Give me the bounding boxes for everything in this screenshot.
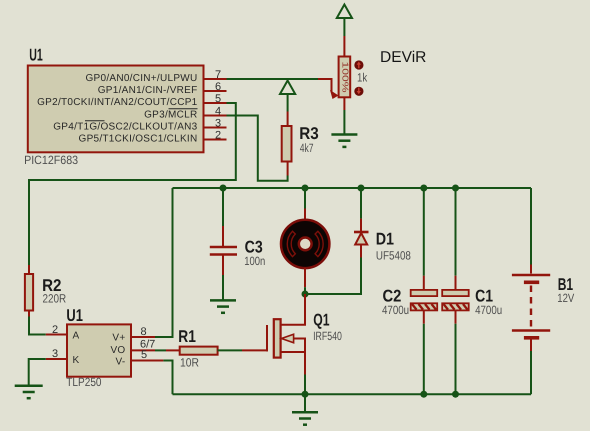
wire: R2 bottom to U2 pin2 [29,317,46,335]
RV value 1k [357,70,368,84]
svg-text:K: K [73,355,80,366]
TLP250 pin 2 stub [46,334,67,336]
C1 top red pin [455,276,457,290]
svg-text:4700u: 4700u [475,303,502,317]
svg-text:7: 7 [215,69,221,81]
C3 top red pin [222,226,224,246]
svg-text:GP4/T1G/OSC2/CLKOUT/AN3: GP4/T1G/OSC2/CLKOUT/AN3 [53,121,197,132]
R3 value 4k7 [300,141,314,155]
TLP250 pin number 8 [141,326,147,338]
wire: rail to B1 plus [530,188,532,265]
R2 top red pin [28,265,30,274]
svg-text:4: 4 [215,105,221,117]
svg-text:3: 3 [52,348,58,360]
svg-text:220R: 220R [43,292,67,306]
U1 pin label GP2 [37,97,198,108]
ground symbol below RV [331,135,357,147]
bottom ground rail wire [173,393,532,395]
C3 reference label [245,238,263,257]
svg-text:IRF540: IRF540 [313,329,342,343]
TLP250 inner label V- [115,357,125,368]
wire: rail to C3 [222,188,224,226]
wire: TLP250 pin8 to VCC rail [155,188,173,337]
R3 reference label [299,124,319,143]
R3 bottom red pin [287,162,289,176]
wire: RV top to power arrow [343,19,345,37]
U1 pin 4 stub [204,115,227,117]
TLP250 pin 5 stub [131,360,163,362]
U1 pin number 4 [215,105,221,117]
U1 pin label GP5 [79,133,198,144]
svg-text:A: A [73,331,80,342]
U1 pin number 3 [215,117,221,129]
wire: bottom rail to Q1 ground [304,394,306,412]
C2 bottom red pin [423,310,425,323]
wire: rail to C2 [423,188,425,276]
U1 pin label GP4 with T1G overline [53,121,197,133]
junction rail/C3 [220,185,227,192]
potentiometer RV body (1k DEVIR) [339,57,351,98]
U1 pin number 6 [215,81,221,93]
svg-text:3: 3 [215,117,221,129]
U1 pin 2 stub [204,139,227,141]
D1 cathode red pin [360,219,362,232]
TLP250 pin number 3 [52,348,58,360]
RV terminal marker dot top [354,60,363,69]
ground symbol at TLP250 K [15,386,43,398]
U1 pin label GP3/MCLR with overline [144,109,197,121]
C2 value 4700u [382,303,409,317]
motor top pin wire from rail [304,188,306,209]
Q1 drain lead [281,294,305,325]
D1 anode red pin [360,245,362,258]
svg-text:1k: 1k [357,70,368,84]
Q1 drain vertical red (node to channel) [304,294,306,322]
junction rail/C2 [420,185,427,192]
RV top terminal red pin [343,36,345,57]
junction rail/D1 [358,185,365,192]
B1 bottom red pin [530,340,532,352]
motor body [281,220,329,268]
motor bottom red pin [304,268,306,287]
resistor R1 body [180,347,218,355]
svg-text:12V: 12V [557,291,574,305]
Q1 source bottom lead [281,351,305,353]
IC U1 PIC12F683 body [28,66,204,153]
ground symbol below C3 [210,300,236,312]
svg-text:2: 2 [52,324,58,336]
svg-text:2: 2 [215,129,221,141]
svg-text:6: 6 [215,81,221,93]
U1 pin label GP1 [98,85,198,96]
TLP250 value label [66,375,101,389]
wire: U1 pin5 to R2 top [29,103,236,265]
C1 reference label [475,287,493,306]
wire: R3 bottom to U1 pin4 [227,116,288,181]
R2 bottom red pin [28,311,30,317]
C2 top red pin [423,276,425,290]
RV 100% rotated text [340,62,350,94]
TLP250 pin 6/7 stub [131,349,155,351]
R3 top red pin [287,112,289,127]
U1 pin 3 stub [204,127,227,129]
TLP250 pin number 5 [141,349,147,361]
wire: R1 to Q1 gate [218,349,242,351]
junction bottom rail/C1 [452,391,459,398]
R1 reference label [178,327,196,346]
wire: Q1 source to bottom rail [304,375,306,395]
capacitor C1 (electrolytic) plates [442,290,469,311]
R2 reference label [42,276,61,295]
svg-text:UF5408: UF5408 [376,248,411,262]
svg-text:5: 5 [141,349,147,361]
svg-text:VO: VO [110,345,125,356]
TLP250 pin number 2 [52,324,58,336]
junction bottom rail/C2 [420,391,427,398]
svg-text:Q1: Q1 [313,311,329,330]
U1 pin number 7 [215,69,221,81]
RV terminal marker dot bottom [354,87,363,96]
U1 reference label [29,46,43,65]
U1 pin number 2 [215,129,221,141]
svg-text:DEViR: DEViR [380,49,426,66]
junction rail/C1 [452,185,459,192]
U1 pin 6 stub [204,90,227,92]
R1 value 10R [180,356,199,370]
B1 top red pin [530,265,532,274]
svg-text:R1: R1 [178,327,196,346]
svg-text:GP3/MCLR: GP3/MCLR [144,109,197,120]
node label DEViR [380,49,426,66]
Q1 channel bar [274,319,281,357]
R1 left red lead [166,349,180,351]
wire: U1 pin7 to RV wiper [227,78,319,80]
wire: TLP250 pin6/7 to R1 [155,349,166,351]
svg-text:V-: V- [115,357,125,368]
svg-text:GP5/T1CKI/OSC1/CLKIN: GP5/T1CKI/OSC1/CLKIN [79,133,198,144]
wire: motor bottom to node [304,287,306,294]
wire: D1 anode to motor node [305,258,361,295]
wire: rail to D1 cathode [360,188,362,219]
TLP250 pin 8 stub [131,336,155,338]
diode D1 symbol [354,232,369,245]
capacitor C2 (electrolytic) plates [411,290,438,311]
svg-text:10R: 10R [180,356,199,370]
svg-text:U1: U1 [29,46,43,65]
R2 value 220R [43,292,67,306]
U1 pin label GP0 [85,73,197,84]
svg-text:GP2/T0CKI/INT/AN2/COUT/CCP1: GP2/T0CKI/INT/AN2/COUT/CCP1 [37,97,198,108]
ground symbol below Q1 [292,412,318,424]
wire: TLP250 pin3 to ground [29,359,46,386]
U1 value label PIC12F683 [24,153,78,167]
optocoupler U1 TLP250 body [67,324,131,376]
svg-text:PIC12F683: PIC12F683 [24,153,78,167]
resistor R3 body [282,126,292,162]
wire: rail to C1 [455,188,457,276]
Q1 source arrow [281,334,305,343]
wire: C1 to bottom rail [455,324,457,395]
Q1 reference label [313,311,329,330]
U1 pin 7 stub [204,78,227,80]
svg-text:100n: 100n [244,254,265,268]
C1 bottom red pin [455,310,457,323]
svg-text:4k7: 4k7 [300,141,314,155]
capacitor C3 plates [210,247,237,255]
C1 value 4700u [475,303,502,317]
svg-text:GP1/AN1/CIN-/VREF: GP1/AN1/CIN-/VREF [98,85,198,96]
TLP250 reference label U1 [66,306,83,325]
wire: B1 minus to bottom rail [530,351,532,394]
svg-text:U1: U1 [66,306,83,325]
RV wiper red lead [318,78,332,92]
TLP250 inner label K [73,355,80,366]
svg-text:GP0/AN0/CIN+/ULPWU: GP0/AN0/CIN+/ULPWU [85,73,197,84]
wire: power arrow to R3 top [287,94,289,112]
TLP250 inner label A [73,331,80,342]
RV wiper arrowhead [330,90,339,99]
TLP250 pin 3 stub [46,358,67,360]
svg-text:V+: V+ [112,333,125,344]
svg-text:D1: D1 [376,230,394,249]
svg-text:8: 8 [141,326,147,338]
Q1 source lead [304,338,306,375]
C3 value 100n [244,254,265,268]
B1 value 12V [557,291,574,305]
U1 pin 5 stub [204,102,227,104]
RV bottom terminal red pin [343,97,345,110]
junction rail/motor [302,185,309,192]
svg-text:5: 5 [215,93,221,105]
D1 reference label [376,230,394,249]
C2 reference label [383,287,402,306]
svg-text:TLP250: TLP250 [66,375,101,389]
U1 pin number 5 [215,93,221,105]
wire: TLP250 pin5 to bottom rail [163,361,172,395]
transistor Q1 IRF540 gate bar [266,325,268,351]
wire: RV bottom to ground [343,110,345,135]
B1 reference label [558,275,573,294]
TLP250 pin number 6/7 [140,339,155,351]
D1 value UF5408 [376,248,411,262]
Q1 gate red lead [242,349,268,351]
motor top red pin [304,209,306,221]
wire: C3 to ground [222,275,224,300]
resistor R2 body [25,274,33,311]
svg-text:100%: 100% [340,62,350,94]
svg-text:4700u: 4700u [382,303,409,317]
wire: C2 to bottom rail [423,324,425,395]
Q1 value IRF540 [313,329,342,343]
junction motor/D1/Q1 drain [302,291,309,298]
C3 bottom red pin [222,256,224,276]
VCC rail wire (top) [173,187,532,189]
power terminal arrow (top of RV) [337,5,352,19]
TLP250 inner label V+ [112,333,125,344]
TLP250 inner label VO [110,345,125,356]
junction bottom rail/Q1 source [302,391,309,398]
power arrow above R3 [280,81,295,95]
battery B1 symbol [512,275,550,338]
